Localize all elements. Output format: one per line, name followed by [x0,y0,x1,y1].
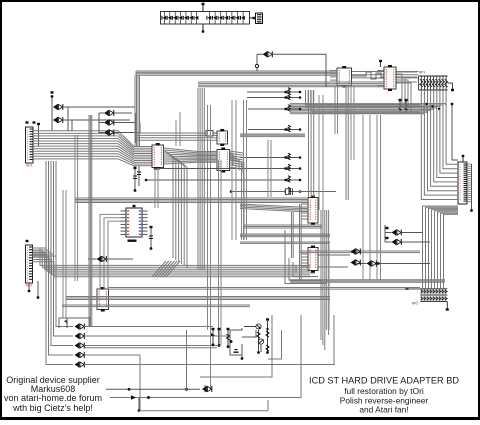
wire V63 [63,190,66,318]
bus H4 [240,134,305,137]
wire DL4 drop [139,355,141,411]
bus CN1 ramp into U1 [118,131,152,166]
wire D6 right [272,54,326,87]
wire extra CN3 feed [451,103,458,160]
wire V186 [186,330,188,389]
wire DL5 right [84,364,335,366]
IC U7 [308,246,318,273]
wire D6 left [255,54,262,71]
connector J5 (top small) [253,13,263,24]
bus H9 [240,234,330,237]
wire V207 [208,105,211,389]
resistor R2 [247,93,301,100]
svg-text:ICD ST HARD DRIVE ADAPTER BD: ICD ST HARD DRIVE ADAPTER BD [309,375,459,385]
bus H1 [136,71,337,75]
pin stubs U7 [301,251,308,266]
bus H3 left part [305,104,420,113]
diode pair D2 [53,117,63,123]
diode pair D4 [104,120,114,126]
IC U6 [308,196,318,226]
text block: ICD ST title [309,375,459,414]
IC U5 [384,65,396,91]
wire 155 vert [155,168,158,208]
IC U9 top mark [133,205,136,207]
diode pair D3 [104,110,114,116]
wire H1 left corner [135,71,137,75]
wire mid verts [176,112,180,146]
component X2 [206,131,217,137]
bus H17 [62,305,250,307]
wire loop E [268,330,282,359]
wire verts x319 [319,95,323,210]
diode pair DL5 [75,362,85,368]
wire DL3 right [84,346,217,348]
bus U4 right to RP1 [352,72,419,78]
bus H6 [75,198,308,203]
bus U2 feed [136,113,217,143]
bus V89 [89,115,92,327]
bus CN1 to U1 (horizontal) [33,131,118,159]
text block: original device supplier [4,375,102,413]
connector CN1 [26,127,34,167]
svg-text:von atari-home.de forum: von atari-home.de forum [4,393,102,403]
bus H10 [240,242,330,243]
wire RP1 right bracket [448,83,455,91]
bus V321 [321,210,329,350]
pin stubs U4 left [330,71,337,81]
bus CN3 to RP2 [423,206,459,289]
svg-text:wth big Cietz's help!: wth big Cietz's help! [12,403,93,413]
resistor R7 [227,328,230,348]
wire loop C [333,315,335,364]
bus H14 [290,280,445,282]
wire verts x351 [351,86,354,160]
bus V299 [300,204,302,281]
wire CN2 top mark [26,240,29,242]
wire loop A [200,315,272,377]
diode D6 [263,51,273,57]
diode array DA1 [161,12,250,25]
capacitor C2 [137,166,141,186]
wire DA1 to J5 [250,17,256,19]
resistor array RP2 [412,289,447,306]
resistor R3 [248,105,301,112]
bus H5 U1-U3 link [164,148,218,164]
resistor array RP1 [419,71,448,91]
bus CN2 elbows up [33,248,57,256]
bus H15 [108,288,420,290]
bus H8 [243,225,322,228]
diode D12 [351,260,361,266]
bus H3 into fan [290,104,446,114]
bus H2 [198,82,384,87]
svg-text:RP2: RP2 [412,302,418,306]
bus V198 mid [198,88,204,270]
wire DL4 right [84,354,140,356]
wire V218 [219,160,222,345]
wire DA1 top stub [202,3,205,12]
wire U4 bottom drops [335,86,338,134]
wire D8 right [401,233,430,243]
diode D10 [367,261,377,267]
diode D9 [392,239,402,245]
IC U1 [152,143,164,170]
bus V135 from H1 [135,75,140,146]
bus H11 [300,251,420,253]
IC U3 [217,148,230,173]
wire D1 right [63,107,135,120]
resistor R5 [240,153,301,160]
wire top box verts [268,140,271,197]
transistor Q4 area [204,385,206,392]
pin stubs U6 [301,201,308,219]
wire DL2 right [84,335,228,337]
diode pair DL2 [75,333,85,339]
wire CN1 aux vertical [37,123,40,146]
wire bottom long 398 [110,395,301,412]
bus V363 [363,115,381,280]
label CN1 top marks [26,121,36,123]
wire CN2 bottom stub [28,283,31,292]
bus U5 right drops [397,74,412,113]
wire N links [218,328,221,347]
wire ladder top box [59,318,90,328]
wire DA1 bottom stub [202,24,205,33]
bus CN1 drop to diode ladder [46,161,73,365]
bus V308 upper [309,90,314,197]
wire CN3 right rail [467,164,473,212]
diode pair D7 [88,256,133,262]
resistor R6 [154,164,302,171]
bus U5 right [397,72,418,82]
wire U5 top stub [379,60,382,67]
IC U4 [337,66,352,88]
svg-text:HD1: HD1 [26,163,33,167]
diode D11 [351,249,361,255]
capacitor C3 [149,226,153,250]
bus U3 right [230,151,244,169]
resistor R4 [248,125,301,132]
connector CN3 [458,162,467,204]
wire bottom long 410 [139,410,268,412]
wire DL1 right [84,326,213,328]
bus H7 ramp to U6 [240,204,308,212]
IC U2 [217,129,228,146]
bus CN2 to U7 (H13) [33,248,311,277]
bus U1 down bundle [165,151,187,268]
wire loop B [240,315,301,398]
bus ramp J (diagonal) [152,261,180,277]
bus U3 right elbows [230,152,243,173]
wire Kv [325,245,329,330]
wire D3-D5 left [99,113,104,133]
bus H16 [66,297,330,300]
wire D1 links [68,107,72,131]
bus V346 [346,85,348,200]
svg-text:full restoration by tOri: full restoration by tOri [344,386,424,396]
wire CN3 top stub [462,155,465,162]
IC U8 [97,287,109,312]
wire D8 left [385,225,392,242]
wire D1-D2 left drop [51,91,54,131]
wire CN2 drop [37,281,40,299]
resistor R11 on H3 [399,99,402,113]
diode D14 [106,386,212,392]
wire D3-D5 right [114,113,140,133]
wire U7 right outs [319,255,351,267]
resistor R8 [240,187,301,194]
pin stubs U5 left [378,71,385,86]
diode pair DL4 [75,352,85,358]
diode pair DL1 [75,324,85,330]
IC U9 (DIP) [121,208,148,242]
junction dots fan [425,103,440,110]
svg-text:and Atari fan!: and Atari fan! [359,405,408,415]
capacitor C1 [133,166,137,192]
resistor R1 [247,88,301,95]
wire verts x232 [232,100,247,240]
wire D10 [357,262,430,264]
transistor cluster Q1-Q3 [230,318,270,360]
crystal Y1 [230,189,336,196]
svg-text:RP1: RP1 [419,71,425,75]
wire H3 elbows [306,90,314,108]
transistor Q5 [211,328,215,346]
wire RP2 left feed [406,288,421,290]
bus U9 left drops [100,214,121,289]
wire RP2 right stub [446,302,449,311]
diode pair DL3 [75,343,85,349]
resistor R12 on H3 [405,99,408,113]
wire V241 [242,162,245,240]
diode pair D5 [104,130,114,136]
wire loop D [267,400,269,411]
connector CN2 [26,245,33,287]
wire U4-U5 jogs [352,72,384,79]
bus V75 [75,135,78,281]
resistor R7 [145,176,302,183]
bus RP1 to CN3 fan [421,90,458,200]
diode D8 [392,230,402,236]
bus V291 [292,212,294,258]
diode pair D1 [53,104,63,110]
wire K loops [285,230,326,284]
